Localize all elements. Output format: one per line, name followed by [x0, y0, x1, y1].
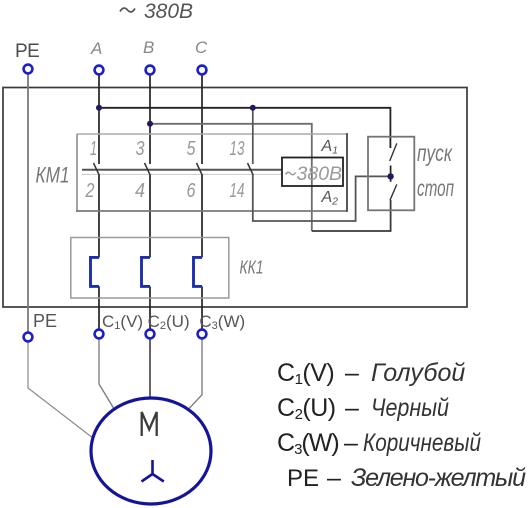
svg-text:2: 2 [85, 180, 95, 202]
svg-text:А: А [90, 39, 102, 58]
svg-text:А2: А2 [321, 189, 339, 208]
svg-text:пуск: пуск [417, 140, 453, 166]
svg-text:C1(V): C1(V) [102, 312, 143, 332]
svg-text:3: 3 [136, 138, 145, 160]
svg-text:–: – [345, 359, 359, 387]
svg-text:стоп: стоп [417, 175, 454, 201]
svg-text:1: 1 [90, 138, 97, 160]
svg-text:C1(V): C1(V) [277, 359, 334, 388]
svg-text:Черный: Черный [371, 394, 449, 422]
svg-text:–: – [345, 394, 359, 422]
svg-text:C3(W): C3(W) [199, 312, 245, 332]
svg-text:КМ1: КМ1 [36, 163, 70, 188]
svg-text:380В: 380В [297, 163, 343, 185]
svg-text:C3(W): C3(W) [277, 429, 339, 458]
svg-text:КК1: КК1 [240, 257, 264, 278]
svg-text:14: 14 [230, 180, 245, 202]
svg-text:C2(U): C2(U) [148, 312, 190, 332]
svg-text:С: С [195, 38, 208, 57]
svg-text:Голубой: Голубой [371, 359, 465, 387]
svg-text:380В: 380В [144, 0, 193, 23]
svg-text:–: – [327, 464, 341, 492]
svg-text:–: – [344, 429, 358, 457]
svg-text:5: 5 [187, 138, 197, 160]
svg-text:4: 4 [135, 180, 145, 202]
svg-text:Зелено-желтый: Зелено-желтый [351, 464, 526, 492]
svg-text:В: В [143, 38, 154, 57]
svg-text:PE: PE [33, 311, 57, 331]
svg-text:Коричневый: Коричневый [363, 429, 481, 457]
svg-text:C2(U): C2(U) [277, 394, 336, 423]
svg-text:PE: PE [287, 465, 319, 492]
svg-text:PE: PE [15, 41, 39, 62]
svg-text:13: 13 [230, 138, 245, 160]
svg-text:6: 6 [187, 180, 197, 202]
svg-text:А1: А1 [321, 138, 339, 157]
